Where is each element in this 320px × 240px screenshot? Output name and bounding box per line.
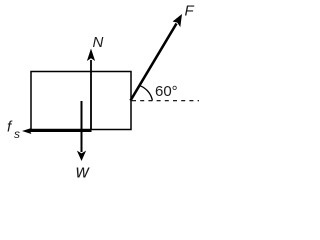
svg-text:w: w: [76, 162, 90, 182]
svg-text:60°: 60°: [155, 83, 178, 100]
svg-text:s: s: [14, 127, 20, 141]
svg-text:F: F: [185, 2, 195, 19]
svg-text:N: N: [93, 34, 104, 51]
